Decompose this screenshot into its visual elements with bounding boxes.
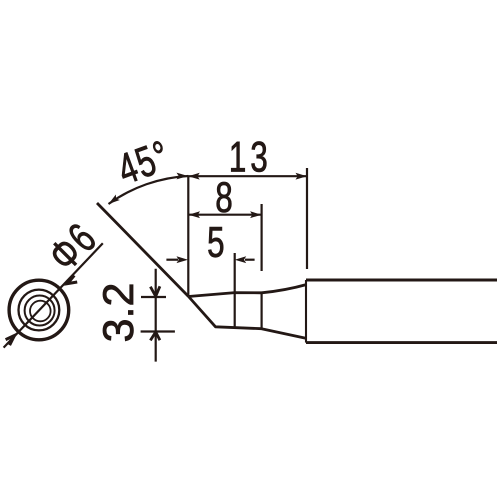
label 13 bbox=[231, 142, 266, 172]
arc arrow left end (points down-left) bbox=[109, 195, 120, 204]
arrow 3.2 bottom (open V, points up) bbox=[150, 332, 160, 340]
tip outline: top contour from apex to barrel bbox=[189, 285, 307, 297]
dimension line 13 bbox=[188, 175, 307, 177]
dimension 5 left tail with arrow pointing right bbox=[166, 259, 178, 261]
arrow 8 right (points right) bbox=[250, 211, 262, 218]
tip outline: lower edge from apex bbox=[189, 297, 306, 339]
label 3.2 (rotated 90) bbox=[103, 285, 133, 341]
tick top (apex level) bbox=[141, 296, 166, 298]
end-view circle 4 (inner) bbox=[30, 301, 51, 322]
barrel bottom edge bbox=[306, 341, 497, 344]
end-view circle outer (barrel O6) bbox=[9, 280, 69, 340]
extension line right of 13 bbox=[306, 168, 308, 269]
leader arrow upper-right (open V, points down-left) bbox=[68, 275, 78, 283]
barrel top edge bbox=[306, 279, 497, 282]
dimension 5 right tail with arrow pointing left bbox=[245, 259, 255, 261]
arrow 8 left (points left) bbox=[189, 211, 201, 218]
leader arrow lower-left (open V, points up-right) bbox=[6, 335, 15, 345]
extension line of 5 through tip bbox=[234, 253, 236, 327]
arrow 13 left (points left) bbox=[188, 173, 200, 180]
arc arrow right end (points right) bbox=[177, 173, 189, 180]
barrel left edge bbox=[305, 280, 307, 343]
dimension line 8 bbox=[188, 214, 261, 216]
end-view circle 3 bbox=[25, 296, 55, 326]
label 5 bbox=[208, 227, 223, 257]
arrow 13 right (points right) bbox=[296, 173, 308, 180]
feature line at x=261.6 inside tip bbox=[261, 293, 263, 329]
arrow 3.2 top (open V, points down) bbox=[150, 286, 160, 296]
tick bottom bbox=[141, 330, 175, 332]
extension line left (apex vertical) bbox=[187, 176, 189, 297]
bevel line (45 degree face) bbox=[97, 203, 189, 297]
extension line right of 8 bbox=[261, 204, 263, 271]
dimension 3.2 vertical carrier line bbox=[155, 269, 157, 362]
diameter leader line bbox=[4, 243, 103, 347]
label 8 bbox=[217, 182, 232, 212]
end-view circle 2 bbox=[19, 290, 60, 331]
label O6 (rotated 45) bbox=[47, 222, 98, 273]
label 45deg (rotated) bbox=[115, 140, 170, 185]
angle arc 45deg bbox=[109, 176, 189, 204]
